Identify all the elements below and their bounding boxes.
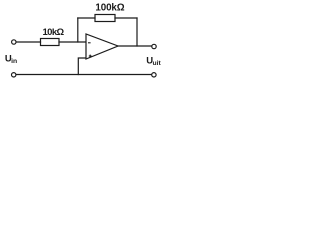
bottom rail wire [16, 74, 151, 76]
svg-text:100kΩ: 100kΩ [95, 3, 124, 14]
wire op-amp + input [78, 58, 85, 75]
resistor R1 10k box [41, 39, 60, 46]
op-amp plus sign [89, 55, 92, 57]
svg-text:10kΩ: 10kΩ [43, 27, 65, 38]
resistor R2 100k box [95, 15, 115, 22]
op-amp U1 triangle [86, 34, 118, 59]
wire top left to R2 [78, 17, 95, 19]
wire R2 to right corner [115, 17, 137, 19]
wire op-amp output [118, 45, 151, 47]
op-amp minus sign [88, 42, 91, 44]
bottom left terminal circle [12, 73, 16, 77]
output terminal circle (Uuit top) [152, 44, 156, 48]
bottom right terminal circle [152, 73, 156, 77]
wire R1 to op-amp inverting input [59, 41, 86, 43]
feedback right vertical wire [136, 18, 138, 46]
input terminal circle (Uin top) [12, 40, 16, 44]
node feedback tap / wire up [77, 18, 79, 42]
wire input terminal to R1 [16, 41, 40, 43]
